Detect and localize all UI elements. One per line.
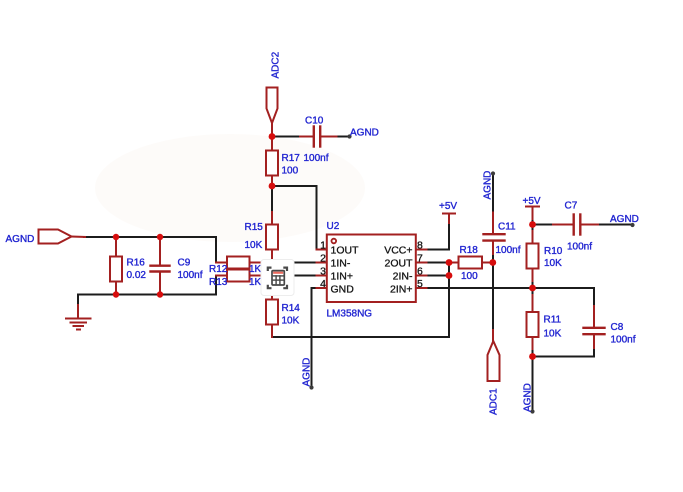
overlay capture icon <box>261 260 294 296</box>
junction pin7 node <box>446 259 453 266</box>
svg-text:1IN-: 1IN- <box>331 258 351 270</box>
node end dot C7 AGND <box>630 223 634 227</box>
junction R18 C11 node <box>489 259 496 266</box>
wire R12 to pin2 <box>258 262 316 264</box>
svg-text:10K: 10K <box>544 258 562 269</box>
svg-text:100: 100 <box>461 271 478 282</box>
svg-text:2IN-: 2IN- <box>393 271 413 283</box>
wire node to ADC1 <box>492 262 494 331</box>
resistor R18 body <box>449 262 459 264</box>
svg-text:100nf: 100nf <box>611 335 636 346</box>
svg-text:C9: C9 <box>178 258 191 269</box>
wire R13 to pin3 <box>258 275 316 277</box>
svg-text:1IN+: 1IN+ <box>331 271 353 283</box>
svg-text:ADC1: ADC1 <box>489 388 500 415</box>
capacitor C8 <box>593 306 595 327</box>
resistor R17 body <box>271 137 273 151</box>
wire R14 bottom rail to 2OUT net <box>272 263 449 338</box>
svg-text:R12: R12 <box>209 264 228 275</box>
capacitor C7 <box>553 224 573 226</box>
svg-text:R15: R15 <box>245 222 264 233</box>
junction bottom rail R16 <box>113 291 119 297</box>
svg-text:5: 5 <box>417 278 423 290</box>
svg-text:10K: 10K <box>245 240 263 251</box>
wire rail to R12 <box>215 237 217 263</box>
svg-text:100nf: 100nf <box>304 153 329 164</box>
svg-text:1K: 1K <box>249 277 262 288</box>
capacitor C11 <box>492 213 494 234</box>
wire node to R15 <box>271 186 273 214</box>
wire R16 top <box>115 237 117 248</box>
resistor R11 body <box>532 295 534 312</box>
capacitor C9 <box>159 237 161 265</box>
wire R11 bottom node <box>532 348 534 357</box>
wire rail node to R11 <box>532 288 534 297</box>
svg-text:R13: R13 <box>209 277 228 288</box>
svg-text:AGND: AGND <box>610 214 639 225</box>
svg-text:2OUT: 2OUT <box>384 258 413 270</box>
svg-text:3: 3 <box>320 266 326 278</box>
node end dot C11 AGND <box>491 171 495 175</box>
svg-text:+5V: +5V <box>439 201 457 212</box>
resistor R10 body <box>532 231 534 244</box>
wire C8 bottom to node <box>533 347 595 357</box>
junction pin6 node <box>446 272 453 279</box>
op-amp U1 pin stubs left <box>317 249 328 251</box>
wire node to R10 <box>532 225 534 234</box>
power +5V first <box>443 213 455 215</box>
op-amp U2 pin stubs right <box>416 249 427 251</box>
junction +5V C7 R10 node <box>529 221 536 228</box>
port AGND left <box>39 230 72 244</box>
wire +5V2 to node <box>532 218 534 225</box>
svg-text:100nf: 100nf <box>178 270 203 281</box>
svg-text:4: 4 <box>320 278 326 290</box>
svg-text:2IN+: 2IN+ <box>390 284 412 296</box>
svg-text:6: 6 <box>417 266 423 278</box>
svg-text:C11: C11 <box>498 222 516 233</box>
svg-text:AGND: AGND <box>523 383 534 412</box>
resistor R12 body <box>216 262 227 264</box>
wire node ADC2 to C10 <box>272 136 303 138</box>
svg-text:C10: C10 <box>305 116 324 127</box>
svg-text:10K: 10K <box>282 316 300 327</box>
port ADC1 <box>492 330 494 341</box>
svg-text:10K: 10K <box>544 329 562 340</box>
wire pin8 to +5V <box>427 222 450 250</box>
wire pin7 to R18 <box>427 262 450 264</box>
svg-text:C7: C7 <box>565 201 578 212</box>
junction bottom rail C9 <box>157 291 163 297</box>
wire C9 bottom <box>159 286 161 295</box>
svg-text:1: 1 <box>320 240 326 252</box>
svg-text:LM358NG: LM358NG <box>327 309 373 320</box>
wire R17 node to pin1 <box>272 186 317 250</box>
svg-text:100nf: 100nf <box>496 245 521 256</box>
wire pin4 to AGND stub <box>312 288 317 388</box>
wire bottom AGND stub <box>532 357 534 412</box>
svg-text:R14: R14 <box>282 303 301 314</box>
node end dot C10 AGND <box>347 134 351 138</box>
svg-text:GND: GND <box>331 284 355 296</box>
svg-text:R16: R16 <box>127 258 146 269</box>
svg-text:100nf: 100nf <box>567 242 592 253</box>
wire R10 bottom to rail <box>532 280 534 288</box>
svg-text:AGND: AGND <box>6 234 35 245</box>
resistor R16 body <box>115 237 117 257</box>
resistor R14 body <box>271 288 273 300</box>
wire ground drop <box>77 295 79 308</box>
svg-text:C8: C8 <box>611 322 624 333</box>
resistor R15 body <box>271 212 273 225</box>
svg-text:R18: R18 <box>460 245 479 256</box>
node end dot bottom AGND <box>530 409 534 413</box>
svg-text:0.02: 0.02 <box>127 270 147 281</box>
svg-text:R10: R10 <box>544 246 563 257</box>
svg-text:8: 8 <box>417 240 423 252</box>
svg-text:AGND: AGND <box>483 171 494 200</box>
power +5V second <box>526 206 539 208</box>
capacitor C10 <box>300 136 313 138</box>
resistor R13 body <box>216 275 227 277</box>
wire pin6 to node <box>427 275 450 277</box>
wire bottom rail <box>78 294 216 296</box>
junction R17 bottom node <box>269 183 276 190</box>
wire port lead <box>72 236 86 239</box>
wire node to C7 <box>533 224 556 226</box>
wire R13 to bottom rail <box>215 276 217 295</box>
ground symbol <box>77 305 79 318</box>
junction R10 R11 rail node <box>529 285 536 292</box>
junction R11 C8 AGND node <box>529 353 536 360</box>
junction top rail R16 <box>113 234 119 240</box>
svg-text:+5V: +5V <box>523 196 541 207</box>
wire R16 bottom <box>115 289 117 295</box>
port ADC2 <box>267 88 278 124</box>
wire C9 top <box>159 237 161 252</box>
svg-text:R11: R11 <box>544 315 562 326</box>
svg-text:2: 2 <box>320 253 326 265</box>
svg-text:AGND: AGND <box>302 358 313 387</box>
junction top rail C9 <box>157 234 163 240</box>
wire C7 to AGND stub <box>596 224 633 226</box>
svg-text:7: 7 <box>417 253 423 265</box>
svg-text:1K: 1K <box>249 264 262 275</box>
svg-text:U2: U2 <box>327 221 340 232</box>
svg-text:AGND: AGND <box>350 128 379 139</box>
wire AGND left rail top <box>84 236 216 238</box>
op-amp U2 body <box>327 235 416 303</box>
svg-text:VCC+: VCC+ <box>384 245 412 257</box>
svg-text:1OUT: 1OUT <box>331 245 360 257</box>
faint watermark smudge <box>95 134 365 242</box>
svg-text:100: 100 <box>282 166 299 177</box>
wire C11 AGND stub <box>492 174 494 215</box>
wire C11 bottom to node <box>492 251 494 262</box>
wire pin5 rail to C8 <box>427 288 595 307</box>
node end dot pin4 AGND <box>309 385 313 389</box>
wire C10 to AGND stub <box>332 136 350 138</box>
wire pin3 node to R14 <box>271 276 273 290</box>
svg-text:ADC2: ADC2 <box>271 51 282 78</box>
junction ADC2 node <box>269 133 276 140</box>
svg-text:R17: R17 <box>282 153 301 164</box>
